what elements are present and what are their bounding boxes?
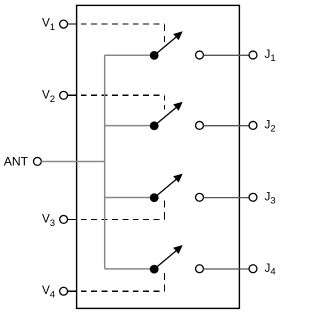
switch S3 [150,174,183,203]
wire J2 link [204,125,250,127]
wire J4 link [204,268,250,270]
terminal V1 [60,20,68,28]
control line V4 dashed vertical [163,273,165,291]
svg-text:J4: J4 [265,262,276,278]
svg-text:V3: V3 [42,212,55,229]
terminal V2 [60,91,68,99]
svg-text:J1: J1 [265,48,276,64]
switch S1 [150,31,183,60]
terminal V4 [60,287,68,295]
wire ANT bus [104,55,106,269]
switch S4 [150,245,183,274]
control line V1 dashed vertical [163,25,165,43]
terminal J1 inner contact [196,51,204,59]
control line V2 dashed horizontal [81,94,165,96]
switch S2 [150,102,183,131]
svg-text:V2: V2 [42,88,55,105]
wire J3 link [204,197,250,199]
wire bus branch row 4 [105,268,155,270]
wire bus branch row 1 [105,54,155,56]
wire bus branch row 2 [105,125,155,127]
terminal J3 outer [249,193,257,201]
wire V1 stub [68,23,77,25]
terminal J2 outer [249,121,257,129]
wire bus branch row 3 [105,197,155,199]
wire V4 stub [68,290,77,292]
svg-text:J3: J3 [265,191,276,207]
wire V2 stub [68,94,77,96]
svg-text:ANT: ANT [4,155,29,169]
terminal J1 outer [249,51,257,59]
control line V3 dashed vertical [163,200,165,219]
device outline [77,5,240,308]
wire V3 stub [68,218,77,220]
terminal J3 inner contact [196,193,204,201]
terminal ANT [33,157,41,165]
terminal V3 [60,215,68,223]
svg-text:V4: V4 [42,284,55,301]
terminal J4 inner contact [196,265,204,273]
terminal J4 outer [249,265,257,273]
svg-text:V1: V1 [42,17,55,34]
wire ANT feed [41,161,104,163]
control line V3 dashed horizontal [81,218,165,220]
control line V4 dashed horizontal [81,290,165,292]
control line V1 dashed horizontal [81,23,165,25]
terminal J2 inner contact [196,121,204,129]
control line V2 dashed vertical [163,96,165,110]
svg-text:J2: J2 [265,119,276,135]
wire J1 link [204,54,250,56]
